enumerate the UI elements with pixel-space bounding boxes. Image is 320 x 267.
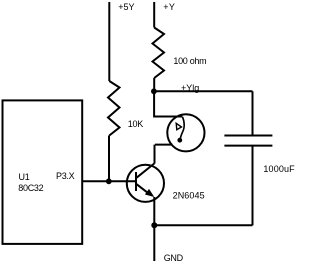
wire 100ohm to +Ylg node (153, 78, 155, 91)
wire +Y rail top (153, 2, 155, 28)
svg-text:P3.X: P3.X (56, 171, 75, 181)
lamp filament dot (177, 138, 182, 143)
wire emitter vertical (153, 197, 155, 225)
svg-text:+5Y: +5Y (118, 2, 134, 12)
wire GND stub (153, 225, 155, 261)
wire +5Y rail top (108, 2, 110, 81)
svg-text:U1: U1 (19, 172, 30, 182)
transistor collector diagonal (137, 163, 155, 177)
svg-text:100 ohm: 100 ohm (173, 56, 206, 66)
svg-text:1000uF: 1000uF (263, 164, 295, 174)
svg-text:+Y: +Y (163, 2, 175, 12)
transistor emitter diagonal (137, 184, 150, 194)
wire +Ylg horizontal to capacitor (154, 90, 253, 92)
wire collector vertical (154, 145, 156, 164)
capacitor top lead (252, 91, 254, 135)
IC U1 80C32 box (3, 100, 83, 244)
transistor 2N6045 circle (127, 165, 164, 202)
resistor 100 ohm (153, 28, 165, 79)
wire 10K to base junction (108, 136, 110, 182)
junction dot base node (106, 178, 112, 184)
junction dot emitter GND node (151, 222, 157, 228)
lamp filament squiggle (180, 117, 184, 140)
svg-text:+Ylg: +Ylg (181, 83, 199, 93)
resistor 10K (108, 81, 120, 136)
capacitor bottom lead (252, 146, 254, 226)
wire bottom to capacitor (154, 224, 252, 226)
capacitor bottom plate (224, 145, 272, 147)
junction dot +Ylg node (151, 88, 157, 94)
svg-text:GND: GND (164, 253, 184, 263)
transistor emitter arrowhead (145, 189, 154, 197)
lamp filament triangle (176, 123, 181, 129)
lamp bulb circle (167, 114, 204, 151)
wire base from U1 (82, 180, 135, 182)
wire lamp upper lead (154, 91, 182, 116)
wire lamp lower lead (155, 144, 173, 146)
svg-text:2N6045: 2N6045 (173, 190, 205, 200)
capacitor top plate (224, 135, 272, 137)
transistor base bar (135, 172, 137, 191)
svg-text:80C32: 80C32 (18, 183, 43, 193)
svg-text:10K: 10K (128, 119, 143, 129)
